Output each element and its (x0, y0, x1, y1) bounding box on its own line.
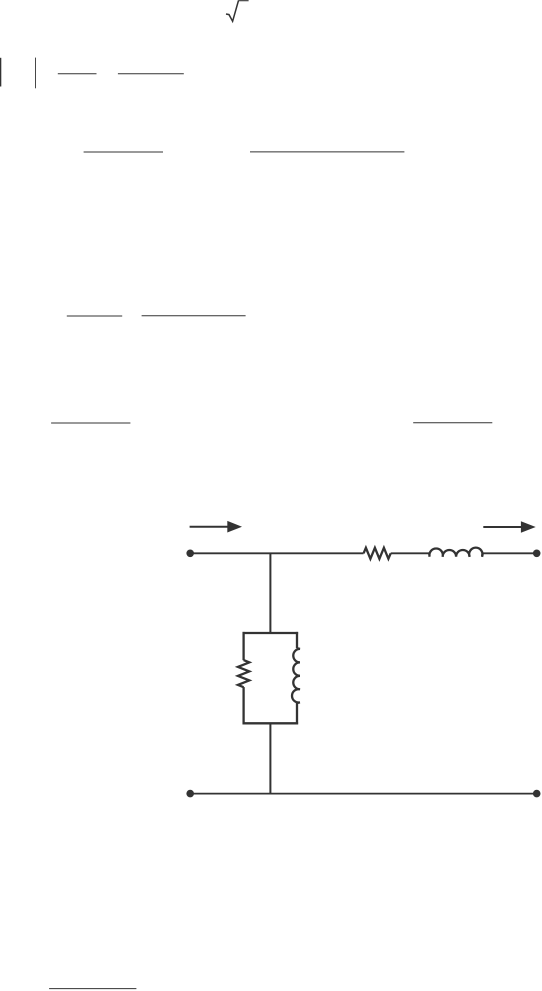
fraction bar (row 3, first) (67, 315, 122, 317)
wire: parallel box top rail (243, 632, 299, 634)
wire: top rail (190, 552, 537, 554)
radical sign (square root) (226, 1, 249, 22)
wire: left branch lower segment (242, 687, 244, 724)
wire: shunt branch lower (269, 723, 271, 793)
current arrow (output, top-right) (483, 521, 535, 533)
node: input top terminal (186, 550, 194, 558)
wire: left branch upper segment (242, 632, 244, 660)
current arrow (input, top-left) (190, 521, 242, 533)
wire: bottom rail (190, 793, 537, 795)
node: output top terminal (533, 550, 541, 558)
fraction bar (row 4, second) (413, 422, 492, 424)
absolute value bar (34, 58, 37, 89)
inductor L (shunt, in parallel box) (292, 648, 300, 703)
fraction bar (row 1, first) (58, 73, 97, 75)
fraction bar (row 3, second) (142, 315, 246, 317)
resistor R (shunt, in parallel box) (238, 660, 249, 687)
node: input bottom terminal (186, 790, 194, 798)
absolute value bar (left, at page edge) (0, 58, 1, 87)
fraction bar (bottom of page) (49, 988, 136, 990)
wire: parallel box bottom rail (243, 722, 299, 724)
fraction bar (row 4, first) (51, 422, 130, 424)
fraction bar (row 1, second) (118, 73, 184, 75)
wire: right branch upper segment (296, 632, 298, 648)
fraction bar (row 2, second) (250, 151, 404, 153)
resistor R (series, top) (364, 548, 391, 559)
node: output bottom terminal (533, 790, 541, 798)
wire: shunt branch upper (269, 553, 271, 633)
fraction bar (row 2, first) (84, 151, 163, 153)
inductor L (series, top) (429, 548, 482, 557)
wire: right branch lower segment (296, 703, 298, 724)
